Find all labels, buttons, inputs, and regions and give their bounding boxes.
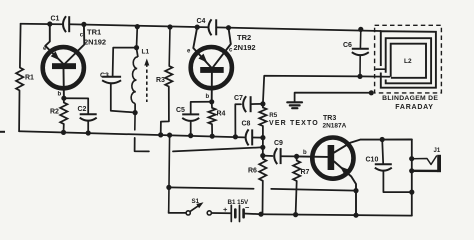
svg-text:VER TEXTO: VER TEXTO	[269, 120, 319, 127]
node R7 bottom	[293, 212, 298, 217]
node tank top	[134, 45, 139, 50]
node J1 sleeve junction	[409, 168, 414, 173]
resistor R2	[50, 98, 67, 132]
node R6 bottom	[258, 212, 263, 217]
resistor R7	[293, 156, 309, 214]
wire TR1 base stem	[63, 69, 65, 98]
node C9 left	[260, 153, 265, 158]
wire TR2 collector lead	[213, 28, 231, 68]
coil L2 outer turn	[381, 31, 436, 87]
wire J1 tip contact	[412, 156, 437, 165]
svg-text:2N192: 2N192	[234, 43, 256, 52]
wire S1 corner	[169, 211, 186, 213]
svg-text:R4: R4	[217, 111, 226, 118]
wire R6 column upper	[262, 138, 264, 159]
node R4 bottom	[210, 134, 215, 139]
svg-text:−: −	[245, 203, 250, 212]
node long wire left	[166, 185, 171, 190]
pin e label TR2	[187, 49, 191, 55]
wire S1 column	[168, 135, 171, 211]
wire long mid left	[169, 187, 254, 188]
node R5 top	[260, 101, 265, 106]
wire top rail segment right	[216, 27, 381, 31]
resistor R5	[259, 104, 277, 138]
resistor R6	[248, 159, 266, 214]
node TR2 base	[209, 99, 214, 104]
wire L2 stub	[376, 68, 386, 70]
label VER TEXTO	[269, 120, 319, 127]
svg-text:S1: S1	[192, 198, 200, 205]
wire R5 column top	[263, 76, 361, 104]
pin c label TR1	[80, 33, 84, 39]
capacitor C4	[197, 18, 217, 35]
pin e label TR1	[43, 46, 47, 52]
capacitor C6	[343, 29, 369, 76]
svg-text:C6: C6	[343, 42, 352, 49]
svg-text:C10: C10	[366, 157, 379, 164]
capacitor C9	[263, 140, 283, 164]
wire J1 feed vertical	[411, 140, 413, 216]
wire top rail segment middle	[69, 24, 207, 27]
label L2	[404, 58, 412, 65]
node TR3 emitter bottom	[353, 213, 358, 218]
transistor TR2 label	[234, 33, 256, 52]
svg-text:C8: C8	[242, 120, 251, 127]
wire TR1 base to C2	[64, 98, 88, 114]
node R2 bottom	[61, 130, 66, 135]
transistor TR3 label	[323, 115, 347, 129]
wire long mid right	[271, 189, 356, 191]
pin b label TR1	[58, 92, 62, 98]
svg-text:L1: L1	[142, 49, 150, 56]
node C5 bottom	[188, 133, 193, 138]
node long wire right	[353, 188, 358, 193]
shield Faraday dashed box	[375, 25, 442, 93]
svg-text:R2: R2	[50, 109, 59, 116]
svg-text:R3: R3	[156, 77, 165, 84]
wire bottom supply line	[261, 214, 412, 215]
resistor R1	[16, 68, 34, 91]
svg-text:C4: C4	[197, 18, 206, 25]
node TR1 base	[61, 96, 66, 101]
wire top rail segment left	[21, 23, 62, 26]
capacitor C10	[366, 140, 412, 193]
svg-text:FARADAY: FARADAY	[395, 104, 433, 111]
pin c label TR2	[229, 48, 233, 54]
transistor TR2 base bar	[200, 67, 224, 73]
transistor TR3 circle	[312, 138, 353, 179]
svg-text:TR3: TR3	[323, 115, 336, 122]
svg-text:R5: R5	[269, 112, 277, 119]
svg-text:R6: R6	[248, 168, 257, 175]
wire left vertical lower	[18, 91, 20, 132]
coil L2 inner turn	[391, 44, 426, 78]
wire bottom rail	[19, 131, 244, 137]
inductor L1	[131, 49, 149, 113]
node C1 right junction	[81, 22, 86, 27]
transistor TR2 circle	[191, 47, 232, 88]
wire tank top to C3	[113, 48, 137, 77]
svg-text:2N187A: 2N187A	[323, 122, 347, 129]
capacitor C5	[176, 107, 199, 136]
svg-text:C9: C9	[274, 140, 283, 147]
wire TR2 base stem	[211, 72, 213, 102]
wire TR2 emitter lead	[193, 27, 211, 68]
svg-text:+: +	[223, 205, 228, 214]
wire battery to bottom line	[244, 213, 261, 216]
wire C9 to R7 top	[281, 155, 297, 157]
wire TR3 collector lead	[334, 140, 412, 153]
node C6 top	[358, 27, 363, 32]
node R3 bottom	[158, 132, 163, 137]
transistor TR1 circle	[43, 47, 84, 88]
label blindagem	[382, 95, 438, 111]
node C8 right	[260, 135, 265, 140]
connector J1 body	[434, 148, 442, 172]
wire TR1 collector lead	[65, 24, 85, 64]
wire tank long wire to R6 column	[173, 147, 263, 151]
wire TR2 base to C5	[191, 102, 212, 114]
svg-text:R1: R1	[25, 75, 34, 82]
node R3 top junction	[167, 24, 172, 29]
node C1 left junction	[47, 21, 52, 26]
node C7 bottom	[233, 134, 238, 139]
capacitor C8	[242, 120, 263, 145]
transistor TR1 base bar	[52, 63, 76, 69]
node C2 bottom	[86, 130, 91, 135]
wire tank bottom down	[134, 113, 136, 130]
wire J1 sleeve contact	[412, 170, 438, 172]
resistor R3	[156, 27, 172, 135]
wire TR3 emitter lead	[334, 162, 356, 216]
svg-text:J1: J1	[434, 148, 441, 154]
battery B1	[223, 199, 250, 222]
wire TR1 emitter lead	[45, 24, 63, 64]
capacitor C3	[100, 73, 135, 113]
capacitor C2	[78, 106, 97, 133]
node S1 column top	[167, 133, 172, 138]
svg-text:C1: C1	[51, 16, 60, 23]
node long wire junction	[260, 145, 265, 150]
node C4 left junction	[195, 25, 200, 30]
wire S1 to battery	[212, 212, 231, 214]
coil L2 middle turn	[386, 38, 431, 83]
svg-text:b: b	[303, 150, 307, 156]
node J1 tip junction	[409, 156, 414, 161]
svg-text:L2: L2	[404, 58, 412, 65]
wire tank feed vertical	[136, 27, 139, 48]
capacitor C7	[234, 95, 251, 137]
wire tank bottom below rail	[135, 138, 149, 152]
wire left vertical upper	[19, 24, 22, 68]
node L1 tank top junction	[135, 24, 140, 29]
node tank bottom	[133, 110, 138, 115]
svg-text:C3: C3	[100, 73, 109, 80]
ground shield	[287, 93, 371, 109]
wire edge tick	[0, 131, 5, 133]
svg-text:C7: C7	[234, 95, 243, 102]
wire TR3 base	[297, 155, 328, 158]
svg-text:2N192: 2N192	[84, 38, 106, 47]
svg-text:C5: C5	[176, 107, 185, 114]
node C10 top	[380, 137, 385, 142]
svg-text:b: b	[206, 94, 210, 100]
svg-text:R7: R7	[301, 169, 310, 176]
svg-text:b: b	[58, 92, 62, 98]
wire C7 to R5 node	[251, 103, 263, 105]
pin b label TR2	[206, 94, 210, 100]
switch S1	[186, 198, 211, 215]
node C6 bottom	[357, 74, 362, 79]
transistor TR1 label	[84, 28, 106, 47]
capacitor C1	[51, 16, 70, 33]
wire tank to L2 inner	[360, 75, 390, 77]
node C10 bottom junction	[409, 190, 414, 195]
transistor TR3 base bar	[328, 145, 335, 170]
pin b label TR3	[303, 150, 307, 156]
node R7 top	[294, 154, 299, 159]
svg-text:TR2: TR2	[237, 33, 251, 42]
svg-text:TR1: TR1	[87, 28, 101, 37]
node shield corner	[369, 90, 374, 95]
arrow L1 tuning dashed	[144, 59, 149, 103]
svg-text:BLINDAGEM DE: BLINDAGEM DE	[382, 95, 438, 102]
resistor R4	[208, 102, 225, 136]
svg-text:C2: C2	[78, 106, 87, 113]
node C4 right junction	[226, 25, 231, 30]
